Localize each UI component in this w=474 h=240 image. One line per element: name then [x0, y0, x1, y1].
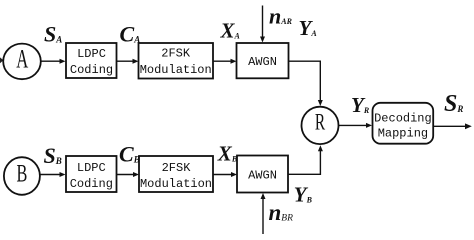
svg-text:Coding: Coding — [70, 63, 113, 77]
svg-text:Coding: Coding — [70, 177, 113, 191]
svg-text:Modulation: Modulation — [140, 63, 212, 77]
block AWGN (top) — [237, 43, 289, 78]
node B — [4, 157, 40, 195]
block 2FSK Modulation (bottom) — [139, 156, 213, 192]
wire: input stub arrowhead at left edge into node A — [0, 57, 3, 63]
wire 2FSK to AWGN (top) — [213, 59, 237, 64]
wire LDPC to 2FSK (bottom) — [117, 172, 140, 177]
node R — [302, 107, 339, 144]
svg-text:Modulation: Modulation — [140, 177, 212, 191]
wire R to Decoding Mapping — [339, 123, 373, 128]
svg-text:2FSK: 2FSK — [161, 47, 191, 61]
svg-text:LDPC: LDPC — [77, 47, 106, 61]
wire AWGN to node R (top path) — [289, 61, 323, 106]
wire Decoding Mapping output S_R — [433, 123, 472, 129]
block 2FSK Modulation (top) — [139, 43, 214, 79]
block AWGN (bottom) — [237, 156, 288, 193]
wire 2FSK to AWGN (bottom) — [213, 172, 237, 177]
svg-text:2FSK: 2FSK — [162, 161, 192, 175]
block LDPC Coding (top) — [66, 43, 117, 78]
wire AWGN to node R (bottom path) — [288, 145, 323, 174]
wire LDPC to 2FSK (top) — [117, 59, 139, 64]
wire B to LDPC encoder (bottom) — [40, 172, 66, 177]
wire A to LDPC encoder (top) — [41, 59, 66, 64]
svg-text:Mapping: Mapping — [378, 127, 428, 141]
block LDPC Coding (bottom) — [66, 156, 117, 192]
svg-text:Decoding: Decoding — [374, 111, 432, 125]
svg-text:R: R — [315, 111, 326, 136]
svg-text:A: A — [16, 45, 28, 74]
svg-text:AWGN: AWGN — [248, 55, 277, 69]
svg-text:B: B — [16, 159, 27, 187]
block Decoding Mapping — [373, 103, 434, 144]
node A — [3, 44, 41, 80]
wire noise n_AR into AWGN (top) — [260, 6, 265, 43]
svg-text:LDPC: LDPC — [77, 161, 106, 175]
svg-text:AWGN: AWGN — [248, 168, 277, 182]
wire noise n_BR into AWGN (bottom) — [261, 193, 266, 234]
